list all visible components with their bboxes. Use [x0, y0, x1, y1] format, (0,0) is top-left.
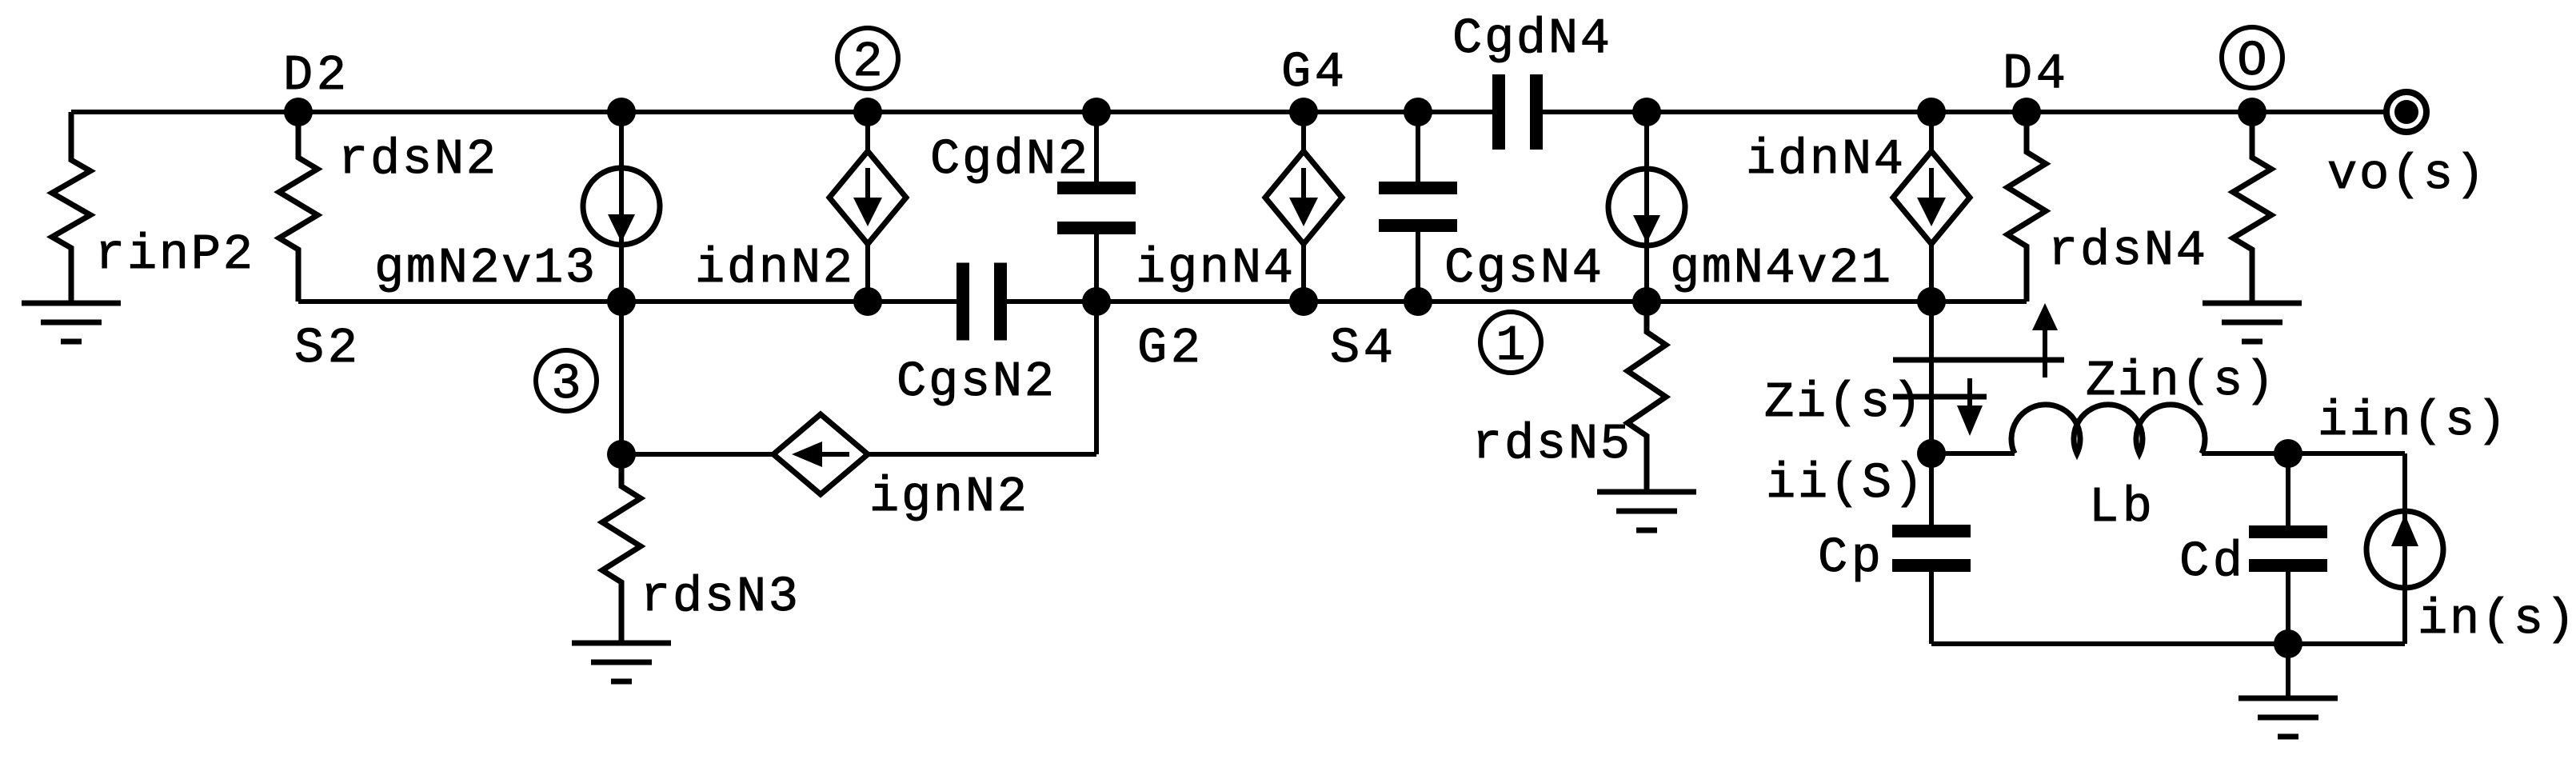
svg-text:idnN2: idnN2: [695, 240, 853, 297]
svg-text:rdsN2: rdsN2: [338, 131, 496, 188]
svg-text:Cp: Cp: [1818, 529, 1881, 586]
svg-text:gmN2v13: gmN2v13: [374, 240, 595, 297]
svg-text:rdsN4: rdsN4: [2048, 222, 2206, 279]
svg-text:rdsN5: rdsN5: [1472, 416, 1630, 473]
svg-text:D2: D2: [283, 47, 346, 104]
svg-text:CgdN2: CgdN2: [930, 131, 1088, 188]
svg-text:Zi(s): Zi(s): [1764, 374, 1922, 431]
svg-text:D4: D4: [2003, 46, 2066, 102]
svg-text:G4: G4: [1281, 44, 1344, 101]
svg-text:ii(S): ii(S): [1766, 455, 1923, 512]
svg-text:2: 2: [853, 34, 882, 90]
svg-text:CgdN4: CgdN4: [1452, 10, 1610, 67]
svg-text:ignN2: ignN2: [869, 469, 1027, 525]
svg-text:Zin(s): Zin(s): [2086, 353, 2274, 409]
svg-text:in(s): in(s): [2418, 591, 2575, 648]
svg-text:gmN4v21: gmN4v21: [1670, 240, 1891, 297]
svg-text:G2: G2: [1137, 320, 1200, 377]
svg-text:rinP2: rinP2: [95, 226, 253, 283]
svg-text:ignN4: ignN4: [1136, 240, 1293, 297]
svg-text:O: O: [2237, 33, 2266, 90]
svg-text:S4: S4: [1330, 320, 1393, 377]
svg-text:Lb: Lb: [2089, 479, 2152, 536]
svg-text:idnN4: idnN4: [1746, 131, 1903, 188]
svg-text:CgsN2: CgsN2: [897, 354, 1054, 410]
svg-text:Cd: Cd: [2179, 533, 2243, 590]
svg-text:rdsN3: rdsN3: [641, 569, 798, 625]
svg-text:1: 1: [1496, 318, 1525, 374]
svg-text:vo(s): vo(s): [2327, 146, 2485, 203]
svg-text:CgsN4: CgsN4: [1444, 240, 1602, 297]
svg-text:3: 3: [551, 356, 581, 413]
svg-text:S2: S2: [294, 320, 357, 377]
svg-text:iin(s): iin(s): [2318, 393, 2506, 449]
